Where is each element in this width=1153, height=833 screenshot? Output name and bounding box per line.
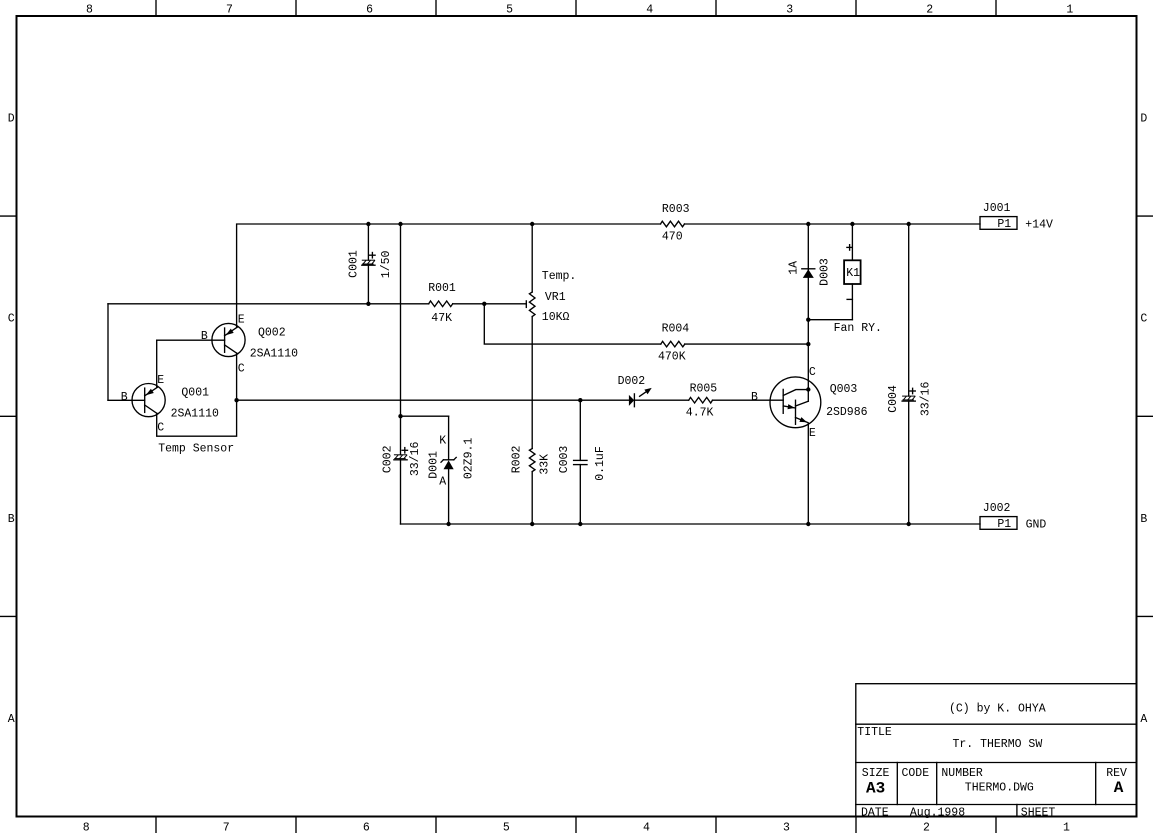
svg-text:1: 1 [1063,822,1070,833]
svg-text:B: B [8,513,15,526]
node GND junctions [446,522,450,526]
svg-text:C003: C003 [558,446,571,474]
zone ticks top [155,0,157,16]
VR1 wiper tap [484,303,526,305]
svg-text:7: 7 [226,4,233,17]
svg-text:10KΩ: 10KΩ [542,311,570,324]
relay K1 [851,224,853,260]
resistor R005 4.7K [689,397,713,403]
svg-text:C: C [8,313,15,326]
svg-text:R002: R002 [511,446,524,474]
svg-text:5: 5 [506,4,513,17]
svg-text:Fan RY.: Fan RY. [834,322,882,335]
title block [856,684,1137,817]
wire D001 branch top [401,415,449,417]
svg-text:Q002: Q002 [258,327,286,340]
svg-text:8: 8 [86,4,93,17]
svg-text:Aug.1998: Aug.1998 [910,806,965,819]
svg-text:470: 470 [662,231,683,244]
svg-text:SHEET: SHEET [1021,807,1056,820]
svg-text:C: C [809,366,816,379]
svg-text:6: 6 [363,822,370,833]
svg-text:B: B [1140,513,1147,526]
node wiper junction [482,302,486,306]
svg-text:2: 2 [926,4,933,17]
svg-text:4.7K: 4.7K [686,406,714,419]
node collectors junction [234,398,238,402]
svg-text:C004: C004 [887,385,900,413]
svg-text:D002: D002 [618,375,646,388]
svg-text:D003: D003 [819,258,832,286]
svg-text:GND: GND [1026,518,1047,531]
svg-text:6: 6 [366,4,373,17]
svg-text:E: E [238,313,245,326]
svg-text:(C) by K. OHYA: (C) by K. OHYA [949,703,1046,716]
capacitor C004 [908,224,910,396]
svg-text:33/16: 33/16 [409,442,422,477]
svg-text:CODE: CODE [902,767,930,780]
node rail junctions [366,222,370,226]
svg-text:4: 4 [643,822,650,833]
svg-text:NUMBER: NUMBER [941,767,983,780]
svg-text:Temp.: Temp. [542,270,577,283]
svg-text:A: A [1114,779,1124,797]
resistor R003 [661,221,685,227]
svg-text:J001: J001 [983,202,1011,215]
svg-text:K: K [439,434,446,447]
svg-text:D001: D001 [428,451,441,479]
resistor R004 470K [661,341,685,347]
wire +14V rail [237,224,661,327]
svg-text:1A: 1A [787,261,800,275]
svg-text:3: 3 [786,4,793,17]
svg-text:VR1: VR1 [545,291,566,304]
node C003 top junction [578,398,582,402]
svg-text:470K: 470K [658,351,686,364]
svg-text:P1: P1 [997,218,1011,231]
svg-text:A: A [1140,713,1147,726]
svg-text:2SD986: 2SD986 [826,406,868,419]
svg-text:33K: 33K [538,454,551,475]
zone ticks left [0,215,17,217]
svg-text:P1: P1 [997,518,1011,531]
svg-text:C: C [1140,313,1147,326]
node D003 line junctions [806,318,810,322]
svg-text:Tr. THERMO SW: Tr. THERMO SW [953,738,1043,751]
svg-text:Q003: Q003 [830,383,858,396]
diode D003 1A [807,224,809,390]
resistor R002 33K [529,449,535,472]
transistor Q002 2SA1110 [157,339,225,341]
capacitor C001 [367,224,369,260]
wire mid row [237,399,629,401]
svg-text:0.1uF: 0.1uF [594,446,607,481]
svg-text:8: 8 [83,822,90,833]
wire rail-to-C002 vertical [400,224,402,416]
svg-text:1: 1 [1066,4,1073,17]
svg-text:3: 3 [783,822,790,833]
svg-text:C002: C002 [381,445,394,473]
svg-text:Q001: Q001 [181,387,209,400]
svg-text:A: A [8,713,15,726]
svg-text:02Z9.1: 02Z9.1 [462,438,475,480]
transistor Q003 2SD986 (darlington) [770,377,821,428]
svg-text:R003: R003 [662,203,690,216]
svg-text:5: 5 [503,822,510,833]
svg-text:Temp Sensor: Temp Sensor [158,443,234,456]
node C001 bottom junction [366,302,370,306]
svg-text:2: 2 [923,822,930,833]
svg-text:B: B [201,330,208,343]
svg-text:R005: R005 [690,383,718,396]
svg-text:THERMO.DWG: THERMO.DWG [965,782,1034,795]
diode D001 zener 02Z9.1 [448,416,450,460]
svg-text:A3: A3 [866,780,885,798]
node C002/D001 junction [398,414,402,418]
svg-text:C: C [157,422,164,435]
connector J002 P1 GND [980,517,1017,530]
zone ticks bottom [155,817,157,833]
svg-text:2SA1110: 2SA1110 [250,347,298,360]
svg-text:4: 4 [646,4,653,17]
svg-text:1/50: 1/50 [380,251,393,279]
svg-text:R001: R001 [428,282,456,295]
zone ticks right [1137,215,1153,217]
svg-text:SIZE: SIZE [862,767,890,780]
transistor Q001 2SA1110 [132,384,165,417]
svg-text:D: D [1140,113,1147,126]
svg-text:7: 7 [223,822,230,833]
wire Q003 emitter [807,423,809,524]
svg-text:C: C [238,363,245,376]
svg-text:E: E [157,374,164,387]
wire left sense vertical [107,304,109,401]
capacitor C003 0.1uF [579,400,581,460]
diode D002 LED [629,395,634,406]
wire wiper to R004 [484,304,661,344]
svg-text:E: E [809,427,816,440]
svg-text:REV: REV [1106,767,1127,780]
wire sense line (R001 row) [108,303,429,305]
svg-text:47K: 47K [431,312,452,325]
svg-text:+14V: +14V [1025,218,1053,231]
svg-text:R004: R004 [662,322,690,335]
connector J001 P1 +14V [980,217,1017,230]
svg-text:C001: C001 [347,250,360,278]
svg-text:K1: K1 [846,267,860,280]
svg-text:33/16: 33/16 [920,382,933,417]
svg-text:TITLE: TITLE [857,726,892,739]
capacitor C002 [400,416,402,455]
svg-text:B: B [751,391,758,404]
wire GND rail [401,523,981,525]
svg-text:B: B [121,391,128,404]
svg-text:D: D [8,113,15,126]
svg-text:DATE: DATE [861,806,889,819]
svg-text:2SA1110: 2SA1110 [171,408,219,421]
resistor R001 47K [429,301,453,307]
potentiometer VR1 10K [531,224,533,292]
svg-text:J002: J002 [983,502,1011,515]
